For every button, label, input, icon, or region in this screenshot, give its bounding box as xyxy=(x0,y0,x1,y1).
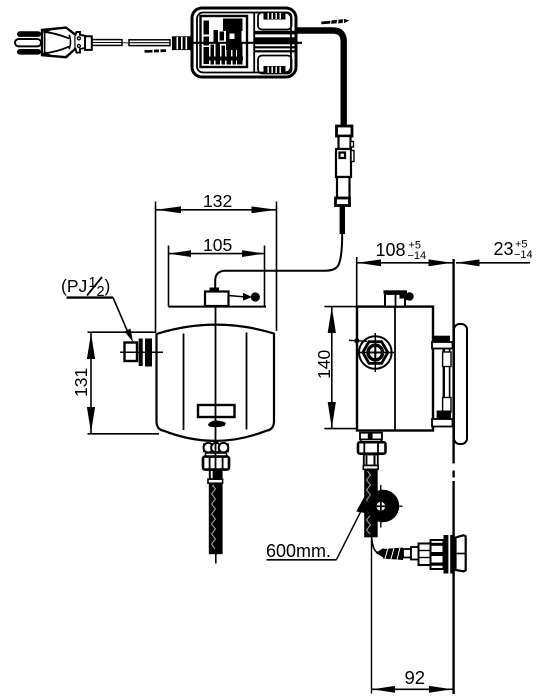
hex nut (front) xyxy=(203,457,229,470)
tank inner line left xyxy=(183,334,185,431)
dim 105 xyxy=(169,235,265,307)
side inlet fitting (left of tank) xyxy=(120,339,163,367)
svg-text:): ) xyxy=(105,276,111,296)
svg-text:131: 131 xyxy=(71,368,91,397)
tank center line xyxy=(215,305,217,470)
vent top slots xyxy=(264,13,286,20)
ferrite boot xyxy=(172,36,193,50)
side body xyxy=(357,307,433,431)
adapter body xyxy=(192,8,302,77)
power cord segment 2 xyxy=(129,40,170,46)
output cable xyxy=(296,31,344,127)
svg-text:108: 108 xyxy=(376,240,406,260)
bottom coupling circles (front) xyxy=(203,443,229,453)
side top fitting xyxy=(384,290,414,306)
side bottom assembly xyxy=(358,433,386,538)
hose tail line xyxy=(215,554,217,564)
svg-text:600mm.: 600mm. xyxy=(266,541,331,561)
ext line for 92 xyxy=(371,537,373,694)
plug prong top xyxy=(17,31,41,37)
top fitting (front view) xyxy=(205,288,260,307)
inline connector xyxy=(336,126,355,206)
adapter vent top frame xyxy=(258,13,292,30)
plug prong middle xyxy=(15,39,41,46)
window xyxy=(198,405,235,417)
svg-text:105: 105 xyxy=(203,235,232,255)
plate top line xyxy=(169,306,267,308)
tank outline (front view) xyxy=(157,325,275,441)
side inner vertical line xyxy=(394,307,396,430)
power cord segment 1 xyxy=(92,40,122,46)
svg-text:−14: −14 xyxy=(408,250,427,262)
sprayer assembly xyxy=(383,535,466,574)
vent bottom slots xyxy=(264,66,286,74)
cord below connector xyxy=(340,206,345,235)
plug prong bottom xyxy=(17,49,41,55)
svg-text:23: 23 xyxy=(494,239,514,259)
svg-text:−14: −14 xyxy=(514,249,533,261)
side inlet circular fitting xyxy=(349,333,394,372)
hose coil xyxy=(356,485,402,528)
logo mark xyxy=(208,420,226,427)
dim 92 xyxy=(372,667,453,693)
band (front) xyxy=(208,479,223,483)
adapter vent bottom frame xyxy=(258,56,292,74)
adapter stripes xyxy=(254,31,295,53)
hose (front) xyxy=(209,483,223,554)
600mm label xyxy=(266,509,362,561)
cord note text xyxy=(144,49,166,53)
svg-text:132: 132 xyxy=(203,191,232,211)
svg-text:140: 140 xyxy=(314,350,334,379)
center line through coupling xyxy=(215,442,217,470)
plug body xyxy=(42,28,76,58)
wire to tank xyxy=(215,234,342,291)
adapter inner outline xyxy=(197,13,291,73)
dim 108 xyxy=(357,240,453,307)
plug end cap xyxy=(85,36,92,50)
adapter label xyxy=(201,16,248,67)
plug collar xyxy=(76,32,86,53)
dim 131 xyxy=(71,332,159,434)
collar (front) xyxy=(209,470,223,479)
tank inner line right xyxy=(246,333,248,430)
adapter divider xyxy=(253,13,255,73)
wall line xyxy=(452,259,454,694)
svg-text:92: 92 xyxy=(405,667,426,688)
dim 23 xyxy=(456,239,533,267)
wall bracket xyxy=(432,336,457,427)
wire to sprayer xyxy=(372,538,383,553)
output note xyxy=(321,19,350,25)
cord axis line xyxy=(193,42,302,44)
dim 132 xyxy=(156,191,277,333)
dim 140 xyxy=(314,307,357,429)
svg-text:(PJ: (PJ xyxy=(61,276,87,296)
PJ 1/2 label xyxy=(61,275,133,342)
cap above hex nut (front) xyxy=(206,453,227,457)
wall plate xyxy=(454,324,467,444)
